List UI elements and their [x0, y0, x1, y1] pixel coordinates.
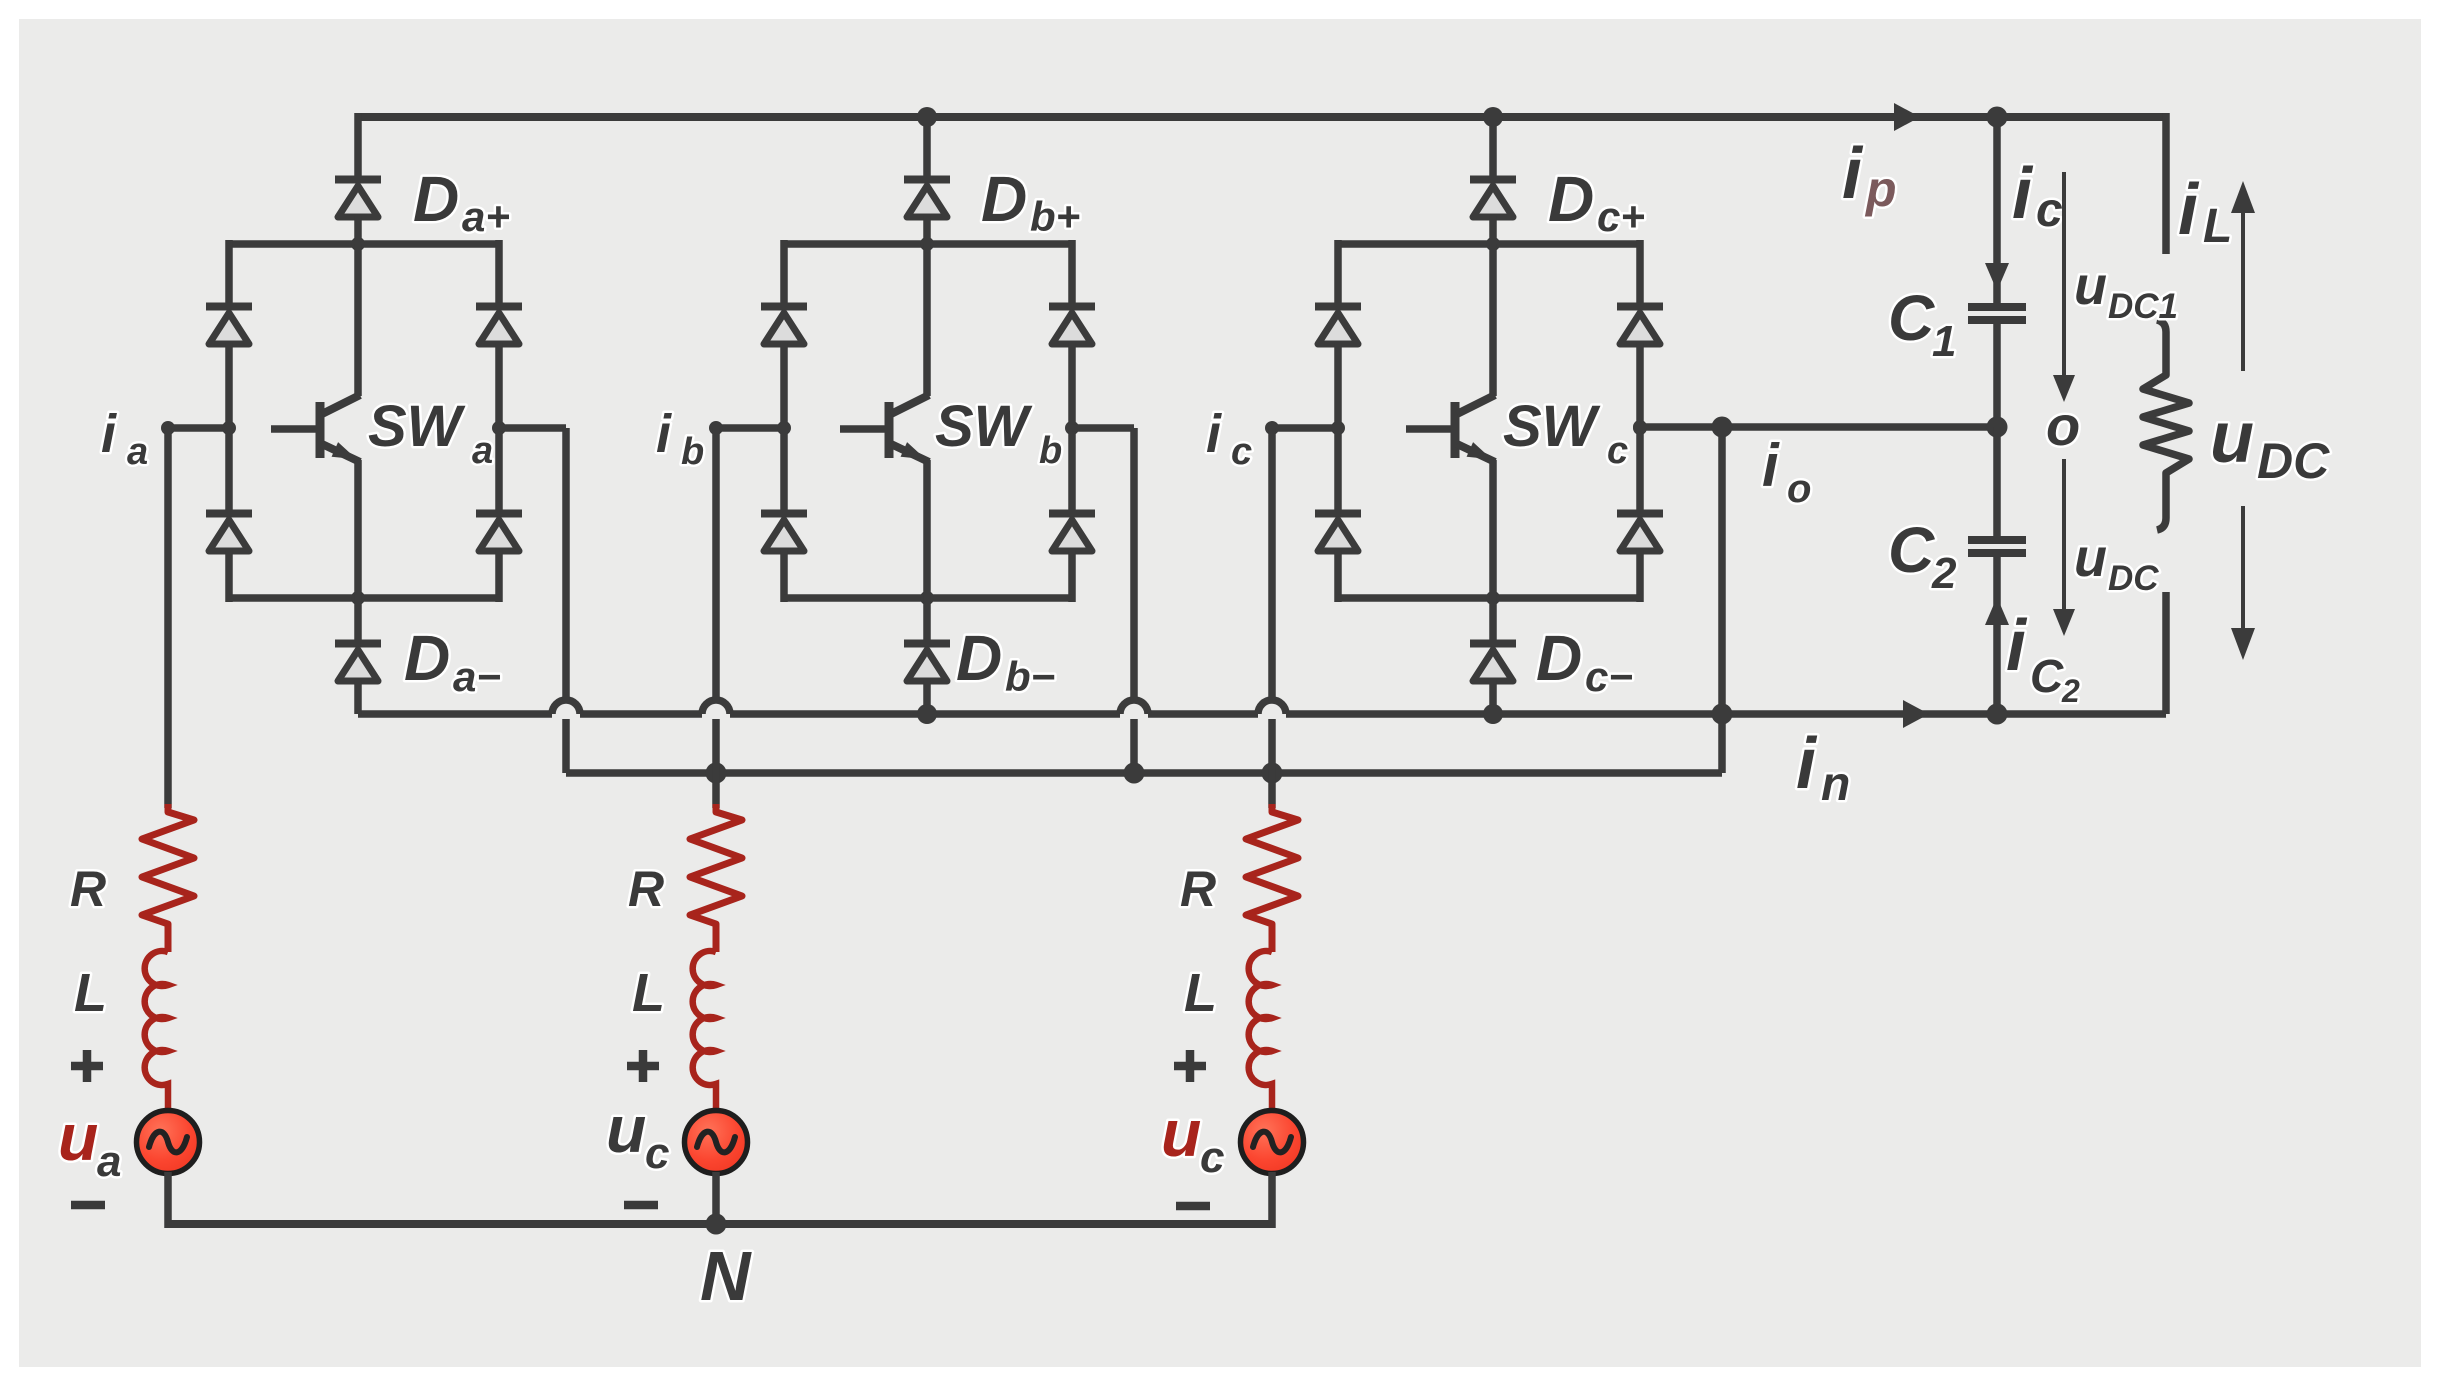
arrow u_DC1 (C1 voltage) — [2053, 172, 2075, 402]
resistor load (u_DC load) — [2143, 320, 2189, 530]
diode bridge lower-right leg a — [476, 514, 522, 552]
wire Db+ to bridge top — [923, 216, 931, 248]
svg-text:DC: DC — [2257, 433, 2330, 489]
junction n-rail node leg c — [1483, 704, 1503, 724]
wire bridge bottom rail leg b — [784, 594, 1072, 602]
svg-text:i: i — [1796, 724, 1818, 804]
wire source c to neutral rail — [1268, 1172, 1276, 1228]
wire bridge bottom to Dc- — [1489, 598, 1497, 642]
node i_c input — [1265, 421, 1279, 435]
svg-text:a+: a+ — [462, 193, 510, 240]
svg-text:L: L — [2203, 200, 2232, 253]
wire i_a input to bridge — [168, 424, 229, 432]
svg-text:b: b — [681, 431, 704, 473]
wire source a to neutral rail — [164, 1172, 172, 1228]
wire bridge left lower leg b — [780, 550, 788, 602]
label u_DC lower — [2074, 528, 2159, 598]
diode bridge lower-left leg b — [761, 514, 807, 552]
svg-text:C: C — [1888, 282, 1935, 354]
junction n-rail node leg b — [917, 704, 937, 724]
wire midpoint riser to o-bus — [1718, 427, 1726, 773]
junction feeder bus / leg b stub — [1124, 763, 1145, 784]
wire midpoint feeder bus — [566, 769, 1722, 777]
label i_p — [1842, 134, 1897, 217]
svg-text:R: R — [1180, 861, 1216, 917]
svg-text:SW: SW — [1503, 394, 1601, 459]
svg-text:L: L — [74, 963, 107, 1023]
transistor SWb (bidirectional switch) — [840, 244, 929, 602]
inductor L phase c — [1249, 951, 1272, 1110]
source u_c (AC source) — [1241, 1111, 1304, 1174]
arrow u_DC lower (C2 voltage) — [2053, 459, 2075, 636]
label u_DC total — [2210, 398, 2330, 489]
wire bridge left upper leg c — [1334, 240, 1342, 305]
svg-text:a: a — [97, 1137, 121, 1186]
diode Db- — [904, 644, 950, 682]
svg-text:R: R — [70, 861, 106, 917]
node i_a input — [161, 421, 175, 435]
label i_c capacitor current — [2012, 154, 2063, 237]
wire neutral rail N — [168, 1220, 1272, 1228]
svg-text:n: n — [1821, 758, 1850, 811]
diode Da- — [335, 644, 381, 682]
junction neutral rail / phase b — [706, 1214, 727, 1235]
junction bridge-bottom node leg c — [1486, 591, 1500, 605]
arrow u_DC total lower — [2231, 506, 2255, 660]
label - phase a — [71, 1201, 105, 1210]
wire i_b input to bridge — [716, 424, 784, 432]
diode bridge lower-right leg b — [1049, 514, 1095, 552]
diode bridge upper-right leg c — [1617, 307, 1663, 345]
wire bridge top rail leg b — [784, 240, 1072, 248]
svg-text:o: o — [2046, 394, 2080, 457]
svg-text:i: i — [1842, 134, 1864, 214]
wire i_c input to bridge — [1272, 424, 1338, 432]
label Db- — [956, 622, 1055, 700]
junction p-rail / capacitor branch — [1987, 107, 2008, 128]
svg-text:a: a — [472, 430, 493, 472]
label i_C2 — [2006, 606, 2080, 709]
svg-text:i: i — [101, 404, 117, 464]
svg-text:L: L — [1184, 963, 1217, 1023]
diode Dc+ — [1470, 180, 1516, 218]
transistor SWc (bidirectional switch) — [1406, 244, 1495, 602]
wire bridge left middle leg a — [225, 343, 233, 512]
wire p-rail (top positive bus) — [358, 113, 2166, 121]
wire phase b vertical upper — [712, 428, 720, 701]
label i_n — [1796, 724, 1850, 811]
capacitor C2 — [1968, 540, 2026, 553]
arrowhead i_p on p-rail — [1894, 103, 1920, 131]
wire phase b leg top (p-rail to Db+) — [923, 113, 931, 176]
wire SWa node to midpoint stub — [499, 424, 566, 432]
svg-text:D: D — [1536, 622, 1582, 694]
wire C2 to n-rail — [1993, 557, 2001, 714]
label + phase c — [1174, 1050, 1206, 1082]
svg-text:c: c — [1607, 430, 1628, 472]
wire bridge bottom rail leg a — [229, 594, 499, 602]
junction p-rail node leg c — [1483, 107, 1503, 127]
diode bridge upper-left leg b — [761, 307, 807, 345]
svg-text:D: D — [404, 622, 450, 694]
diode Dc- — [1470, 644, 1516, 682]
svg-text:i: i — [656, 404, 672, 464]
diode Da+ — [335, 180, 381, 218]
wire midpoint stub vertical leg a — [562, 428, 570, 773]
svg-text:SW: SW — [368, 394, 466, 459]
svg-text:i: i — [2012, 154, 2034, 234]
arrowhead i_n on n-rail — [1903, 700, 1929, 728]
svg-text:DC1: DC1 — [2108, 287, 2178, 326]
svg-text:1: 1 — [1932, 317, 1956, 366]
junction SWc emitter-side node — [1633, 421, 1647, 435]
svg-text:b+: b+ — [1030, 193, 1080, 240]
wire bridge bottom rail leg c — [1338, 594, 1640, 602]
svg-text:c−: c− — [1585, 653, 1633, 700]
label + phase b — [627, 1050, 659, 1082]
svg-text:DC: DC — [2108, 559, 2159, 598]
diode bridge upper-left leg c — [1315, 307, 1361, 345]
svg-text:a−: a− — [453, 653, 501, 700]
svg-text:c: c — [2036, 184, 2063, 237]
svg-text:u: u — [2210, 398, 2254, 478]
wire phase b vertical lower — [712, 719, 720, 808]
wire bridge right upper leg a — [495, 240, 503, 305]
svg-text:SW: SW — [935, 394, 1033, 459]
wire o node to C2 — [1993, 427, 2001, 538]
wire hops where n-rail crosses verticals — [552, 700, 1286, 714]
label Dc+ — [1548, 163, 1645, 240]
wire bridge left lower leg a — [225, 550, 233, 602]
label u_a phase a — [58, 1100, 121, 1186]
label C1 — [1888, 282, 1956, 366]
label i_b — [656, 404, 704, 473]
svg-text:u: u — [2074, 528, 2107, 588]
wire o-bus (capacitor midpoint line) — [1640, 423, 1997, 431]
source u_b (AC source) — [685, 1111, 748, 1174]
inductor L phase a — [145, 951, 168, 1110]
wire Da- to n-rail — [354, 680, 362, 714]
wire load branch lower — [2162, 592, 2170, 714]
label - phase c — [1176, 1202, 1210, 1211]
wire load branch upper — [2162, 113, 2170, 254]
diode bridge lower-right leg c — [1617, 514, 1663, 552]
wire bridge right middle leg b — [1068, 343, 1076, 512]
svg-text:u: u — [58, 1100, 98, 1174]
wire bridge left middle leg c — [1334, 343, 1342, 512]
svg-text:D: D — [1548, 163, 1594, 235]
svg-text:c: c — [1231, 431, 1252, 473]
wire bridge right upper leg c — [1636, 240, 1644, 305]
label u_c phase c — [1161, 1096, 1224, 1182]
junction bridge-left node leg c — [1331, 421, 1345, 435]
label u_c phase b — [606, 1092, 669, 1178]
label - phase b — [624, 1201, 658, 1210]
svg-text:L: L — [632, 963, 665, 1023]
label i_o — [1762, 432, 1811, 511]
junction n-rail / riser — [1712, 704, 1733, 725]
svg-text:D: D — [981, 163, 1027, 235]
junction bridge-top node leg a — [351, 237, 365, 251]
svg-text:c: c — [1200, 1133, 1224, 1182]
label + phase a — [71, 1050, 103, 1082]
svg-text:i: i — [1206, 404, 1222, 464]
label Dc- — [1536, 622, 1633, 700]
wire source b to neutral rail — [712, 1172, 720, 1228]
junction feeder bus / phase c line — [1262, 763, 1283, 784]
wire midpoint stub vertical leg b — [1130, 428, 1138, 773]
wire bridge right upper leg b — [1068, 240, 1076, 305]
svg-text:D: D — [956, 622, 1002, 694]
arrowhead i_c downward — [1985, 263, 2009, 291]
wire Db- to n-rail — [923, 680, 931, 714]
wire SWb node to midpoint stub — [1072, 424, 1134, 432]
diode bridge upper-right leg b — [1049, 307, 1095, 345]
wire bridge right lower leg c — [1636, 550, 1644, 602]
wire n-rail (bottom negative bus) — [358, 710, 2166, 718]
junction feeder bus / phase b line — [706, 763, 727, 784]
arrow i_L / u_DC upper — [2231, 181, 2255, 371]
wire bridge top rail leg c — [1338, 240, 1640, 248]
wire bridge right lower leg b — [1068, 550, 1076, 602]
svg-text:C: C — [2030, 650, 2064, 702]
junction bridge-bottom node leg b — [920, 591, 934, 605]
svg-text:i: i — [2006, 606, 2028, 686]
junction SWb emitter-side node — [1065, 421, 1079, 435]
svg-text:u: u — [2074, 256, 2107, 316]
diode Db+ — [904, 180, 950, 218]
svg-text:D: D — [413, 163, 459, 235]
diode bridge upper-right leg a — [476, 307, 522, 345]
svg-text:b: b — [1039, 430, 1062, 472]
inductor L phase b — [693, 951, 716, 1110]
diode bridge upper-left leg a — [206, 307, 252, 345]
wire bridge left lower leg c — [1334, 550, 1342, 602]
node i_b input — [709, 421, 723, 435]
junction o-bus / riser — [1712, 417, 1733, 438]
resistor R phase a — [142, 804, 194, 952]
label Da+ — [413, 163, 510, 240]
svg-text:i: i — [2178, 170, 2200, 250]
label C2 — [1888, 514, 1957, 598]
transistor SWa (bidirectional switch) — [271, 244, 360, 602]
junction o-bus at SWc node — [1633, 420, 1647, 434]
wire bridge left upper leg a — [225, 240, 233, 305]
wire phase a vertical to source branch — [164, 428, 172, 808]
resistor R phase c — [1246, 804, 1298, 952]
svg-text:u: u — [1161, 1096, 1201, 1170]
wire phase c leg top (p-rail to Dc+) — [1489, 113, 1497, 176]
wire bridge right lower leg a — [495, 550, 503, 602]
svg-text:b−: b− — [1005, 653, 1055, 700]
label SWa — [368, 394, 493, 472]
wire bridge top rail leg a — [229, 240, 499, 248]
wire bridge left middle leg b — [780, 343, 788, 512]
label i_c — [1206, 404, 1252, 473]
label i_a — [101, 404, 148, 473]
wire bridge left upper leg b — [780, 240, 788, 305]
capacitor C1 — [1968, 307, 2026, 320]
junction bridge-left node leg a — [222, 421, 236, 435]
label SWc — [1503, 394, 1628, 472]
wire capacitor branch upper — [1993, 113, 2001, 305]
source u_a (AC source) — [137, 1111, 200, 1174]
junction o node (capacitor midpoint) — [1987, 417, 2008, 438]
diode bridge lower-left leg a — [206, 514, 252, 552]
wire Dc+ to bridge top — [1489, 216, 1497, 248]
resistor R phase b — [690, 804, 742, 952]
svg-text:2: 2 — [1931, 549, 1957, 598]
svg-text:a: a — [127, 431, 148, 473]
junction n-rail / capacitor branch — [1987, 704, 2008, 725]
wire phase c vertical upper — [1268, 428, 1276, 701]
junction bridge-top node leg c — [1486, 237, 1500, 251]
diode bridge lower-left leg c — [1315, 514, 1361, 552]
svg-text:C: C — [1888, 514, 1935, 586]
wire bridge right middle leg a — [495, 343, 503, 512]
svg-text:o: o — [1787, 467, 1811, 511]
wire Da+ to bridge top — [354, 216, 362, 248]
wire Dc- to n-rail — [1489, 680, 1497, 714]
svg-text:c+: c+ — [1597, 193, 1645, 240]
svg-text:N: N — [700, 1237, 752, 1315]
svg-text:u: u — [606, 1092, 646, 1166]
wire C1 to o node — [1993, 324, 2001, 427]
junction SWa emitter-side node — [492, 421, 506, 435]
junction bridge-bottom node leg a — [351, 591, 365, 605]
label i_L — [2178, 170, 2232, 253]
wire bridge right middle leg c — [1636, 343, 1644, 512]
svg-text:c: c — [645, 1129, 669, 1178]
label SWb — [935, 394, 1062, 472]
svg-text:R: R — [628, 861, 664, 917]
wire bridge bottom to Db- — [923, 598, 931, 642]
junction p-rail node leg b — [917, 107, 937, 127]
svg-text:i: i — [1762, 432, 1780, 499]
label Da- — [404, 622, 501, 700]
junction bridge-left node leg b — [777, 421, 791, 435]
arrowhead i_C2 upward — [1985, 597, 2009, 625]
junction bridge-top node leg b — [920, 237, 934, 251]
svg-text:p: p — [1864, 161, 1897, 217]
wire phase c vertical lower — [1268, 719, 1276, 808]
wire bridge bottom to Da- — [354, 598, 362, 642]
svg-text:2: 2 — [2061, 673, 2080, 709]
label Db+ — [981, 163, 1080, 240]
label u_DC1 — [2074, 256, 2178, 326]
wire phase a leg top (p-rail to Da+) — [354, 113, 362, 176]
